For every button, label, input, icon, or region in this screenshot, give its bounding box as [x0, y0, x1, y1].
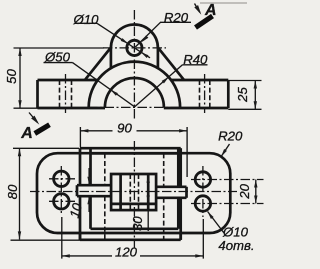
plan boss outline — [111, 174, 156, 210]
plan bore hidden edge right — [163, 153, 165, 239]
svg-text:A: A — [204, 2, 217, 19]
plan bore 30 left edge — [119, 174, 122, 210]
plan cylinder right edge — [177, 148, 180, 229]
svg-text:20: 20 — [237, 183, 252, 199]
view arrow A top bar — [196, 16, 213, 28]
label diam 50 leader — [73, 63, 135, 107]
dim 20 line — [254, 180, 257, 204]
view arrow A left bar — [35, 125, 50, 134]
front view base left edge — [36, 80, 39, 108]
boss outer arc R20 — [111, 25, 158, 49]
dim 30 label — [130, 216, 145, 231]
dim 120 line — [62, 254, 204, 257]
label R40 leader — [134, 65, 182, 107]
plan hole bottom-left — [54, 194, 69, 209]
label diam 10 text — [73, 12, 100, 27]
dim 50 line — [18, 48, 21, 108]
label diam 50 text — [44, 50, 71, 65]
svg-text:R20: R20 — [218, 129, 243, 144]
dim 90 left extension — [79, 127, 81, 148]
plan right rib band — [156, 187, 186, 198]
front view base top edge left — [38, 79, 98, 82]
plan vertical centerline — [133, 141, 135, 248]
plan cylinder top edge — [91, 152, 179, 155]
dim 90 line — [80, 129, 187, 132]
plan label R20 leader — [221, 144, 229, 157]
dim 80 label — [5, 184, 20, 199]
left base hole hidden line 2 — [71, 80, 73, 108]
dim 50 bottom extension — [14, 107, 38, 109]
hole centerline top-right — [191, 179, 264, 181]
plan bore 30 right edge — [147, 174, 150, 210]
extension line near prism top right — [186, 127, 188, 177]
dim 120 label — [115, 245, 138, 260]
svg-text:90: 90 — [117, 121, 132, 136]
plan label diam10 text — [222, 225, 249, 240]
right base hole centerline — [204, 74, 206, 113]
plan boss hole hidden line 1 — [129, 174, 131, 210]
plan bore hidden edge left — [104, 153, 106, 239]
front view base top edge right — [171, 79, 228, 82]
boss hole diam 10 — [127, 40, 142, 55]
plan label R20 text — [218, 129, 243, 144]
dim 80 bottom extension — [11, 239, 81, 241]
plan cylinder left edge — [89, 148, 92, 229]
dim 20 label — [237, 183, 252, 199]
left holes vertical centerline — [60, 166, 62, 214]
plan prism right edge — [179, 148, 182, 240]
label R40 shelf — [183, 64, 208, 66]
label R40 text — [183, 52, 208, 67]
boss right side — [157, 48, 160, 68]
label R20 text — [164, 10, 189, 25]
bore horizontal centerline — [88, 106, 181, 108]
plan hole bottom-right — [195, 196, 210, 211]
dim 25 bottom extension — [228, 108, 261, 110]
dim 120 left extension — [61, 217, 63, 259]
dim 80 line — [18, 148, 21, 239]
boss left side — [110, 48, 113, 68]
plan cylinder bottom edge — [91, 227, 179, 230]
plan boss inner line — [111, 203, 156, 206]
plan plate outline — [37, 153, 230, 233]
left base hole centerline — [65, 74, 67, 113]
plan prism bottom step left — [79, 233, 82, 240]
front view base bottom edge right — [164, 107, 229, 110]
dim 120 right extension — [202, 219, 204, 259]
plan prism left edge — [79, 148, 82, 240]
right base hole hidden line 2 — [209, 80, 211, 108]
svg-text:Ø10: Ø10 — [73, 12, 100, 27]
plan hole top-left — [54, 171, 69, 186]
label diam 10 shelf — [75, 22, 97, 24]
front view base right edge — [227, 80, 230, 108]
hole centerline top-left — [49, 178, 77, 180]
faint scan line top right — [200, 2, 247, 4]
hole centerline bottom-left — [49, 200, 77, 202]
dim 10 lower arrow — [87, 196, 90, 212]
dim 10 label — [67, 201, 85, 220]
right holes vertical centerline — [202, 166, 204, 217]
right base hole hidden line 1 — [199, 80, 201, 108]
plan left rib band — [77, 185, 111, 196]
plan label diam10 leader — [208, 212, 224, 234]
plan hole top-right — [195, 172, 210, 187]
dim 10 upper arrow — [87, 168, 90, 185]
plan label 4otv text — [218, 238, 254, 253]
dim 25 line — [254, 81, 257, 110]
plan horizontal centerline — [30, 191, 237, 193]
svg-text:50: 50 — [4, 69, 19, 84]
svg-text:25: 25 — [235, 87, 250, 103]
arch outer arc R40 — [89, 62, 180, 108]
plan prism bottom step right — [179, 233, 182, 240]
left rib edge — [85, 48, 111, 80]
front vertical centerline — [133, 10, 135, 119]
svg-text:4отв.: 4отв. — [218, 238, 254, 253]
dim 50 top extension — [14, 47, 105, 49]
svg-text:80: 80 — [5, 184, 20, 199]
dim 80 top extension — [13, 147, 79, 149]
view arrow A top arrow — [194, 4, 201, 15]
dim 25 top extension — [228, 80, 261, 82]
label diam 10 opposite arrow — [134, 48, 150, 58]
svg-text:10: 10 — [67, 201, 85, 220]
label R20 shelf — [160, 21, 191, 23]
plan prism top edge — [80, 147, 181, 150]
svg-text:A: A — [20, 125, 33, 142]
front view base bottom edge left — [38, 107, 106, 110]
dim 25 label — [235, 87, 250, 103]
arch inner arc diam 50 — [105, 78, 164, 107]
view arrow A left arrow — [29, 113, 39, 125]
boss horizontal centerline — [103, 47, 166, 49]
label diam 10 leader — [97, 23, 134, 48]
dim 50 label — [4, 69, 19, 84]
dim 90 label — [117, 121, 132, 136]
svg-text:30: 30 — [130, 216, 145, 231]
dim 30 arrows — [147, 175, 150, 231]
label diam 50 shelf — [44, 62, 73, 64]
view arrow A top letter — [204, 2, 217, 19]
label R20 leader — [134, 22, 160, 48]
plan prism bottom edge — [80, 238, 181, 241]
view arrow A left letter — [20, 125, 33, 142]
left base hole hidden line 1 — [59, 80, 61, 108]
hole centerline bottom-right — [191, 203, 264, 205]
right rib edge — [158, 48, 184, 80]
svg-text:120: 120 — [115, 245, 138, 260]
plan boss hole hidden line 2 — [138, 174, 140, 210]
